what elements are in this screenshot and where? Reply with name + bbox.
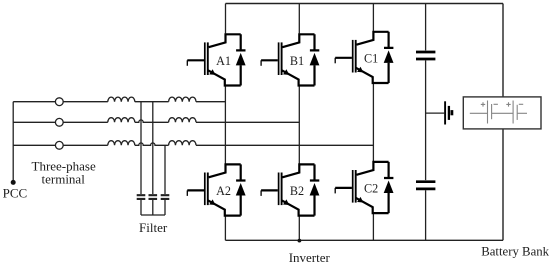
capacitor Cdc1 (upper DC-link capacitor) [416,52,435,59]
svg-text:B1: B1 [290,54,304,68]
svg-text:C1: C1 [364,51,378,65]
node PCC [11,180,16,185]
battery symbol: medium plate [448,106,450,120]
svg-text:A2: A2 [216,184,231,198]
node: junction dot at B2 emitter on bottom bus [298,239,302,243]
wire: leg A top lead from DC+ bus to A1 [225,4,227,34]
svg-text:terminal: terminal [42,171,86,186]
inductor LB2 [169,118,196,123]
wire phase A: left segment [13,101,55,103]
wire: leg C top lead from DC+ bus to C1 [372,4,374,31]
wire phase C to inverter leg C midpoint (crosses legs A and B) [196,144,373,146]
battery cell 1 lead (left) [470,112,487,114]
svg-text:Inverter: Inverter [289,250,331,265]
battery cell 2 positive plate [512,101,514,124]
battery cell 1 minus sign [494,103,498,105]
battery cell 2 minus sign [519,103,523,105]
wire: leg B top lead from DC+ bus to B1 [298,4,300,34]
wire filter tap 2 from phase A down to capacitor CF2 [152,102,154,194]
inductor LA2 [169,97,196,102]
battery inter-cell lead [492,112,513,114]
wire phase B: circle to inductor LB1 [63,121,108,123]
wire: A2 emitter lead to bottom bus [224,216,226,241]
wire filter tap 3 from phase C down to capacitor CF3 [164,145,166,194]
wire filter tap 1 from phase A down to capacitor CF1 [140,102,142,194]
svg-text:A1: A1 [216,54,231,68]
transistor A2 (IGBT) [187,163,240,215]
battery symbol: short plate [450,110,453,115]
wire: B2 emitter lead to bottom bus [298,216,300,241]
transistor C1 (IGBT) [335,31,388,83]
terminal circle phase A [55,98,63,106]
wire: DC- bottom bus [225,239,503,241]
wire phase B to inverter leg B midpoint (crosses leg A) [196,121,299,123]
battery cell 2 negative plate [516,105,518,120]
wire phase C: circle to inductor LC1 [63,144,108,146]
battery cell 1 plus sign [481,102,485,106]
wire phase C with hops over filter taps 1 and 2 [135,143,169,145]
inductor LB1 [108,118,135,123]
capacitor CF1 [137,195,146,199]
wire: right vertical from battery bank box down to bottom bus [502,129,504,240]
diode D-B1 freewheeling [310,34,320,85]
svg-text:Filter: Filter [139,220,168,235]
wire: leg A midpoint vertical (A1 emitter to A2 collector) [224,86,226,165]
svg-text:C2: C2 [364,181,378,195]
transistor C2 (IGBT) [335,161,388,213]
wire: DC-link midpoint to battery symbol [426,112,445,114]
wire phase A: circle to inductor LA1 [63,101,108,103]
diode D-A1 freewheeling [236,34,246,85]
wire: C2 emitter lead to bottom bus [372,213,374,240]
svg-text:Battery Bank: Battery Bank [481,244,549,258]
battery cell 2 lead (right) [517,112,527,114]
inductor LC1 [108,141,135,146]
diode D-C1 freewheeling [384,32,394,83]
wire: leg C midpoint vertical (C1 emitter to C2 collector) [372,83,374,162]
battery cell 1 positive plate [487,101,489,124]
capacitor CF2 [149,195,158,199]
battery bank box outline [463,97,541,129]
wire filter star point: cap leads down and common connector [141,200,165,215]
wire phase C: left segment [13,144,55,146]
wire: right vertical from top bus down to battery bank box [502,4,504,97]
capacitor CF3 [161,195,170,199]
transistor B1 (IGBT) [261,33,314,85]
transistor B2 (IGBT) [261,163,314,215]
wire: DC-link capacitor leg middle lead [425,60,427,180]
capacitor Cdc2 (lower DC-link capacitor) [416,182,435,189]
svg-text:B2: B2 [290,184,304,198]
wire: DC-link capacitor leg lower lead [425,190,427,240]
wire: leg B midpoint vertical (B1 emitter to B2 collector) [298,86,300,165]
svg-text:PCC: PCC [3,185,28,200]
battery symbol: long plate [444,101,446,124]
wire phase A to inverter leg A midpoint [196,101,225,103]
diode D-B2 freewheeling [310,164,320,215]
wire: left vertical bus from phase A down to PCC [12,102,14,181]
terminal circle phase C [55,141,63,149]
diode D-A2 freewheeling [236,164,246,215]
wire phase B: left segment [13,121,55,123]
inductor LA1 [108,97,135,102]
wire: DC-link capacitor leg upper lead [425,4,427,51]
transistor A1 (IGBT) [187,33,240,85]
wire: DC+ top bus [226,3,504,5]
battery cell 2 plus sign [506,102,510,106]
wire phase A: between inductors (filter taps junctions) [135,101,169,103]
wire phase B with hop over filter tap 1 [135,120,169,122]
terminal circle phase B [55,118,63,126]
battery cell 1 negative plate [491,104,493,119]
inductor LC2 [169,141,196,146]
diode D-C2 freewheeling [384,162,394,213]
